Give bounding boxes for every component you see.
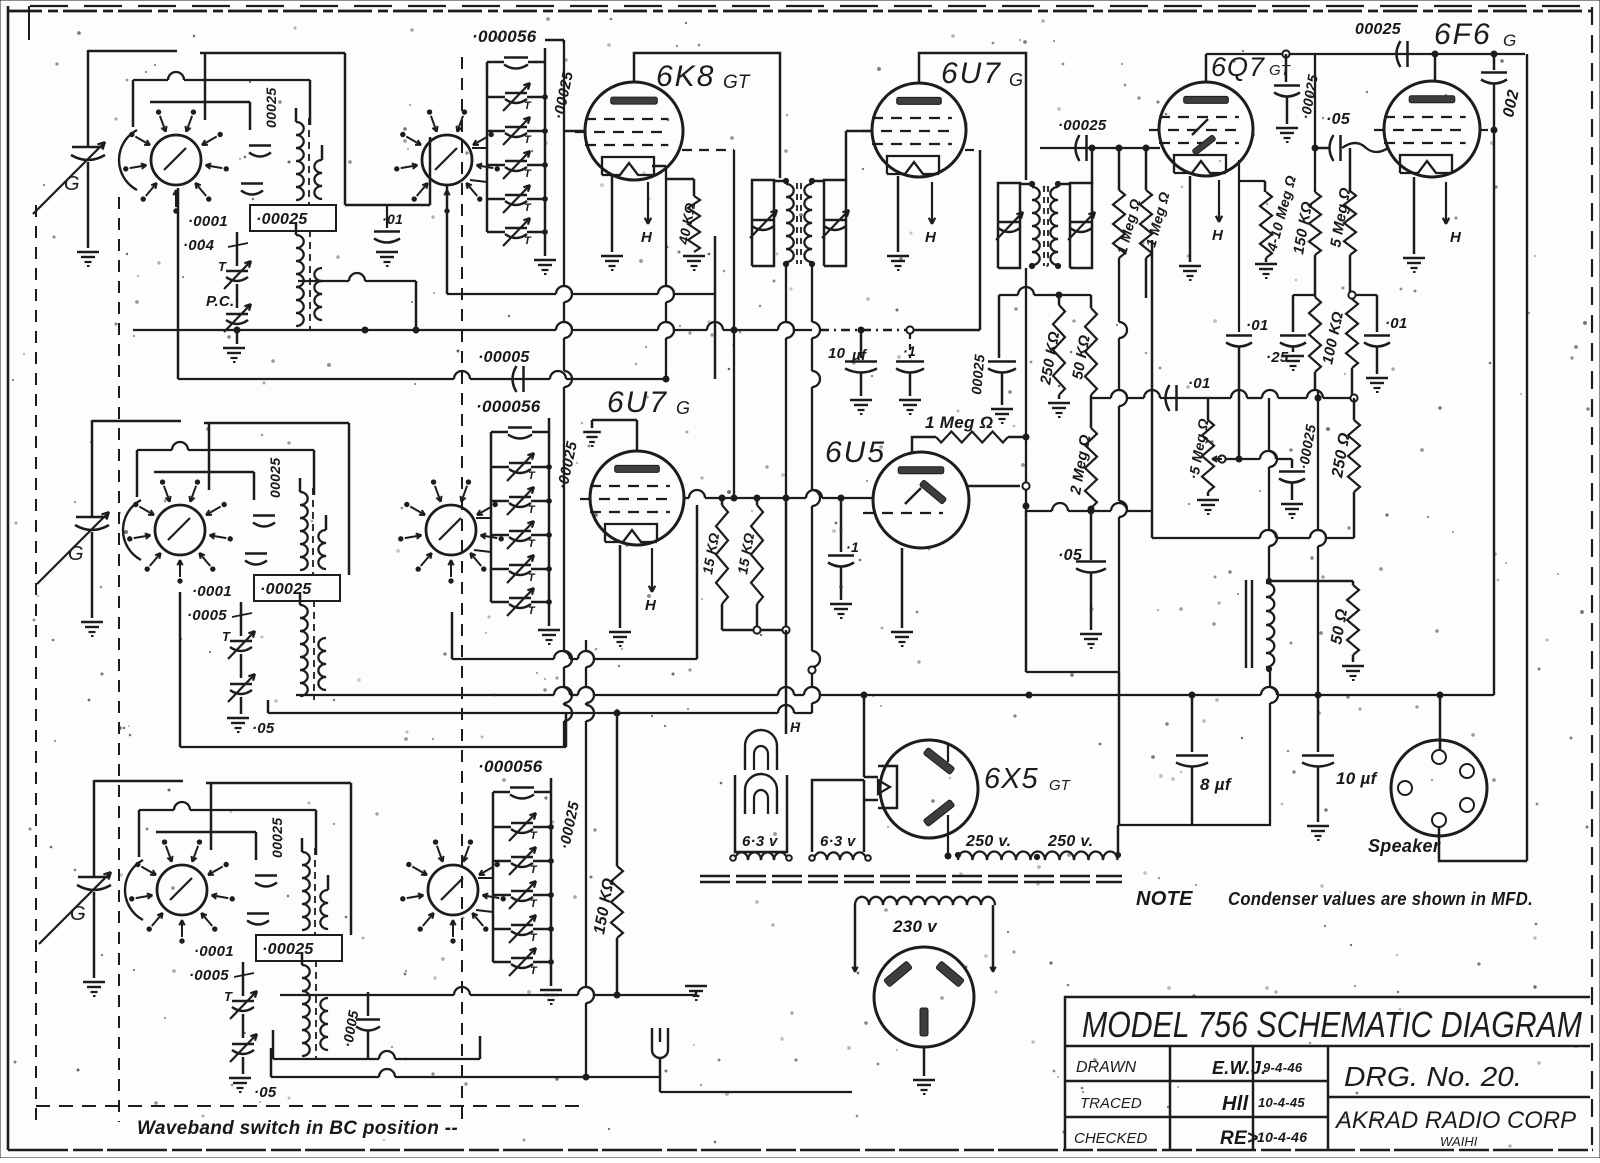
tube V5 6U7G [580,451,684,545]
svg-text:GT: GT [1049,777,1072,794]
wire bias box [1152,240,1354,538]
ground 00025 af [1281,483,1303,518]
label waihi [1440,1134,1478,1149]
capacitor .05 coupling [1330,135,1341,161]
ground .01 interstage [376,252,398,266]
ground V1 cathode [601,256,623,270]
switch S1a [119,110,228,213]
label 6-3v heater [820,833,857,850]
svg-text:·1: ·1 [846,539,859,555]
plug pin L [884,961,913,987]
svg-text:9-4-46: 9-4-46 [1263,1060,1303,1075]
capacitor 00025 plate [1274,54,1300,97]
wire block3 y1077 [271,1048,660,1080]
wire gang3 top [94,780,183,876]
wire IF2 sec top grid [1091,148,1094,184]
capacitor block3 c2 [247,914,269,925]
switch S2a [123,480,232,583]
capacitor .002 [1481,54,1507,84]
wire V7 heater tie [0,0,1,1]
trimmer T blk3 [224,989,257,1019]
ground blk1 pc [223,348,245,362]
svg-text:250 v.: 250 v. [965,833,1011,850]
wire blk1 trim [236,232,239,308]
resistor 1Meg b [1140,148,1173,258]
winding primary 230v [855,897,995,968]
wire v1527 speaker return [1526,54,1528,861]
core L2cd [313,600,315,700]
svg-text:TRACED: TRACED [1080,1095,1142,1112]
speaker pin 2 [1460,764,1474,778]
wire 15K bottoms [722,604,790,634]
svg-text:Condenser values are shown: Condenser values are shown in MFD. [1228,889,1533,909]
wire blk3 trim [242,962,245,1038]
ground gang2 [81,622,103,636]
core L3cd [315,960,317,1060]
svg-text:T: T [530,965,538,977]
capacitor 10uf [828,330,877,373]
winding 6.3v lamps [730,852,792,860]
ground 250K [1048,395,1070,417]
speaker plug [1391,740,1487,836]
border frame left [8,6,29,1150]
svg-text:DRG. No. 20.: DRG. No. 20. [1344,1061,1522,1092]
svg-text:1 Meg Ω: 1 Meg Ω [925,413,993,432]
wire det y398 [1091,390,1358,402]
wire V2 screen [965,150,980,330]
trimmer stack2 t2 [491,487,551,516]
svg-text:G: G [676,398,690,418]
IF2 can left box [998,183,1020,268]
svg-text:E.W.J.: E.W.J. [1212,1058,1266,1078]
svg-text:10: 10 [828,345,846,362]
svg-text:T: T [524,168,532,180]
wire IF1 sec bottom [808,266,820,713]
svg-text:T: T [530,864,538,876]
label 00025 screen rot [968,354,987,396]
svg-text:G: G [1009,70,1023,90]
boxed label .00025 blk3 [256,935,342,961]
wire 5Meg bottom [1348,255,1355,299]
title block drg divider [1328,1096,1590,1099]
ground V6 cathode [891,632,913,646]
coil IF2 secondary [1050,181,1060,268]
V7 cathode bracket [878,766,897,808]
label drg no [1344,1061,1522,1092]
date checked [1257,1129,1307,1145]
switch S1b [395,110,500,213]
label 6K8 GT [656,60,751,93]
wire V5 cathode [619,545,622,628]
wire avc long v1119 [1119,258,1127,672]
svg-text:10 µf: 10 µf [1336,769,1379,788]
capacitor 8uf [1176,695,1233,794]
trimmer stack3 t1 [493,813,553,842]
svg-text:6U7: 6U7 [941,57,1002,90]
padder cap block3 [339,992,380,1059]
wire field coil top [1269,580,1353,583]
core IF1 [797,183,801,264]
trimmer stack1 t1 [487,83,547,112]
label .00025 rot blk2 [267,458,283,498]
ground V5 cathode [609,632,631,646]
wire V2 plate [919,53,1026,180]
svg-text:250 v.: 250 v. [1047,833,1093,850]
svg-text:10-4-46: 10-4-46 [1257,1129,1307,1145]
svg-text:DRAWN: DRAWN [1076,1059,1137,1076]
wire stack1 right [544,48,547,256]
IF1 can left box [752,180,774,266]
title block rows [1065,1081,1328,1117]
wire v666 [666,166,674,379]
svg-text:10-4-45: 10-4-45 [1258,1095,1305,1110]
wire block2 h3 [154,472,254,500]
wire sw3b stubs [476,878,493,912]
wire V1 cathode gnd [611,176,614,252]
svg-text:·00025: ·00025 [262,941,314,958]
svg-text:H: H [1450,229,1462,246]
svg-text:·25: ·25 [1266,349,1289,366]
tube V6 6U5 [863,452,969,548]
ground gang1 [77,252,99,266]
ground .1 avc [899,373,921,414]
coil L2c [300,592,308,696]
wire block3 h1 [206,783,351,935]
svg-text:H: H [641,229,653,246]
wire V4 plate [1434,54,1437,82]
ground 00025 screen [991,373,1013,423]
svg-text:00025: 00025 [263,88,279,128]
coil L1d [314,268,322,320]
capacitor block3 c1 [255,876,277,887]
svg-text:·00005: ·00005 [478,349,530,366]
IF2 can right box [1070,183,1092,268]
wire v1269 to output [1269,398,1277,581]
svg-text:T: T [524,235,532,247]
svg-text:G: G [68,543,84,565]
svg-text:G: G [1503,31,1516,50]
ground 4-10Meg [1255,258,1277,278]
svg-text:·00025: ·00025 [256,211,308,228]
coil L3d [320,998,328,1050]
switch S3a [125,840,234,943]
date drawn [1263,1060,1303,1075]
wire stack1 left [486,62,489,232]
resistor 2Meg [1067,395,1097,512]
wire blk3 pc [242,1057,245,1074]
wire gang2 top [92,420,181,516]
tube V1 6K8GT [575,82,683,180]
speaker pin 1 [1432,750,1446,764]
coil IF1 secondary [804,178,814,266]
resistor tone pot [1346,299,1358,396]
wire block2 h1 [204,423,349,575]
label .0001 blk2 [192,583,232,600]
label 004 blk1 [183,237,248,254]
core L1cd [309,230,311,330]
label akrad [1334,1107,1576,1134]
svg-text:RE˃: RE˃ [1220,1128,1258,1149]
ground 50ohm [1342,655,1364,680]
arrow primary L [852,950,857,972]
wire 150K osc bottom [614,938,620,998]
winding 6.3v heater box [812,780,878,852]
sig checked [1220,1128,1258,1149]
svg-text:·05: ·05 [1058,547,1083,564]
resistor 50ohm [1328,581,1359,655]
wire box bottom y294 [447,186,715,379]
svg-text:·05: ·05 [254,1084,277,1101]
label 6U7 G mid [607,386,690,419]
label drawn [1076,1059,1137,1076]
waveband linkage dashed v2 [118,197,120,1122]
wire .05 to grid [1342,143,1388,152]
tube V2 6U7G [862,83,966,177]
wire 1Meg right [1008,436,1026,439]
label 00025 rot stack3 [556,800,583,851]
svg-text:·01: ·01 [382,211,403,227]
svg-text:·000056: ·000056 [478,757,543,776]
svg-text:230 v: 230 v [892,917,938,936]
switch S3b [401,840,506,943]
ground .01 b [1366,347,1388,392]
plug pin E [920,1008,928,1036]
winding 6.3v heater [809,852,871,860]
IF1 trimmer right [822,210,849,238]
wire stack2 left [490,432,493,602]
wire 4-10 top [1264,181,1267,192]
label 002 rot [1500,88,1522,119]
svg-text:T: T [528,605,536,617]
wire block3 h3 [156,832,256,860]
pilot lamp 2 [745,774,777,814]
svg-text:G: G [64,173,80,195]
coil L2b [318,515,326,569]
sig traced [1222,1093,1249,1115]
svg-text:·00025: ·00025 [260,581,312,598]
wire v617 150K [616,713,619,866]
label .0001 blk1 [188,213,228,230]
wire avc stub y281 [298,273,419,333]
svg-text:H: H [1212,227,1224,244]
wire V2 cathode gnd [897,176,900,252]
wire V5 plate out [684,490,873,501]
trimmer stack3 t4 [493,915,553,944]
wire diode branch a [1239,160,1265,332]
wire .05 left [1315,147,1330,150]
ground 00025 plate [1276,97,1298,142]
svg-text:T: T [530,830,538,842]
label 230v [892,917,938,936]
svg-text:P.C.: P.C. [206,293,234,310]
ground plug [913,1080,935,1094]
wire 40K top [693,179,696,196]
speaker pin 4 [1460,798,1474,812]
waveband linkage dashed v1 [35,205,37,1122]
wire sw1b stubs [470,148,487,182]
wire gang3 bottom [93,892,96,978]
lead H V2 [925,182,937,246]
lead H lamps [786,630,801,735]
wire y295 screen [999,287,1091,298]
svg-text:GT: GT [1269,62,1292,79]
sig drawn [1212,1058,1266,1078]
ground heater [685,986,707,1000]
wire V7 plate leads [945,745,951,859]
coil L2d [318,638,326,690]
wire IF1 top tie [774,180,824,183]
wire IF1 prim bottom [786,266,794,498]
capacitor .01 interstage [374,211,403,243]
capacitor block1 c1 [249,146,271,157]
coil L1b [314,145,322,199]
label 00025 rot stack1 [550,70,577,121]
svg-text:·0001: ·0001 [188,213,228,230]
ground gang3 [83,982,105,996]
resistor 250ohm [1329,398,1360,492]
svg-text:T: T [530,898,538,910]
svg-text:T: T [524,100,532,112]
label 004 blk2 [187,607,252,624]
wire block2 h2 [137,442,314,497]
ground 5Meg vol [1197,492,1219,514]
svg-text:T: T [524,134,532,146]
label 6X5 GT [984,763,1072,795]
svg-text:·000056: ·000056 [472,27,537,46]
label speaker [1368,836,1441,856]
label .0001 blk3 [194,943,234,960]
jack J1 [652,1028,668,1058]
lead H V3 [1212,180,1224,244]
trimmer stack1 t2 [487,117,547,146]
wire block2 v1 [208,423,211,490]
svg-text:·05: ·05 [1326,111,1351,128]
coil L3a [302,838,310,930]
wire IF1 sec top [846,131,872,181]
border frame right [1591,7,1593,1150]
resistor 100K [1309,255,1347,372]
wire bus corner 980 [0,0,1,1]
capacitor .1 avc [896,333,924,373]
svg-text:00025: 00025 [269,818,285,858]
capacitor stack3 top [493,788,551,799]
wire .01b feed [1356,295,1377,332]
wire bus y695 main [296,687,1494,698]
svg-text:·0001: ·0001 [194,943,234,960]
gang tuning capacitor C2a [37,512,109,584]
trimmer stack1 t5 [487,218,547,247]
coil L3b [320,875,328,929]
winding HT secondary [955,851,1120,860]
wire blk1 pc [236,327,239,344]
waveband linkage dashed v3 [461,57,463,1122]
wire block3 v1 [210,783,213,850]
border frame bottom [8,1149,1593,1152]
wire V7 top box [0,0,1,1]
svg-text:·0001: ·0001 [192,583,232,600]
ground 10uf b [1307,767,1329,840]
wire stack3 right [550,778,553,986]
svg-text:GT: GT [723,72,751,93]
waveband linkage dashed bottom [36,1105,588,1107]
resistor 5Meg [1327,148,1356,255]
coil L1a [296,108,304,200]
svg-text:6·3 v: 6·3 v [742,833,779,850]
wire 1Meg left [912,437,936,452]
wire V1 grid [564,130,586,133]
trimmer PC blk1 [206,293,251,332]
IF1 trimmer left [750,210,777,238]
wire block1 h1 [200,53,345,205]
svg-text:T: T [528,470,536,482]
label 6-3v lamps [742,833,779,850]
label 00025 af rot [1295,423,1319,470]
svg-text:·0005: ·0005 [189,967,229,984]
wire v586 osc [586,640,594,1077]
title block frame [1065,997,1590,1150]
svg-text:6·3 v: 6·3 v [820,833,857,850]
capacitor 00025 coupling [1397,41,1408,67]
svg-text:·01: ·01 [1188,375,1211,392]
transformer core [700,876,1122,882]
svg-text:H: H [790,719,801,735]
capacitor .00025 grid [1076,135,1087,161]
svg-text:·000056: ·000056 [476,397,541,416]
trimmer stack2 t5 [491,588,551,617]
svg-text:·0005: ·0005 [187,607,227,624]
svg-text:Waveband switch in BC pos: Waveband switch in BC position -- [137,1118,458,1139]
lead H V5 [645,548,657,614]
wire wiper [1226,451,1292,462]
wire sw2b stubs [474,518,491,552]
ground V2 cathode [887,256,909,270]
trimmer stack2 t3 [491,521,551,550]
wire 100K bottom [1314,372,1317,390]
wire block1 h2 [133,72,310,127]
trimmer T blk1 [218,259,251,289]
tube V4 6F6G [1374,81,1480,177]
label .00025 rot blk3 [269,818,285,858]
svg-text:T: T [222,629,231,644]
svg-text:T: T [218,259,227,274]
capacitor .01 a [1226,317,1269,347]
trimmer PC blk3 [230,1034,257,1062]
svg-text:AKRAD RADIO CORP: AKRAD RADIO CORP [1334,1107,1576,1134]
speaker pin 5 [1432,813,1446,827]
capacitor -00005 [478,349,530,392]
title block cols [1170,1046,1328,1150]
coil L2a [300,478,308,570]
trimmer stack2 t1 [491,453,551,482]
plug P1 [874,947,974,1047]
resistor 1Meg grid [925,413,1008,443]
ground stack1 [534,260,556,274]
svg-text:T: T [528,504,536,516]
wire V3 plate [1206,50,1525,82]
resistor 250K [1037,295,1065,395]
wire V1 dash right [682,149,734,151]
core L1ab [308,118,310,205]
wire V1 heater branch [652,166,694,179]
ground blk2 pc [227,718,249,732]
resistor 4-10Meg [1260,174,1299,258]
svg-text:6K8: 6K8 [656,60,715,93]
wire stack3 left [492,792,495,962]
gang tuning capacitor C1a [33,142,105,214]
wire .01 branch [345,137,430,228]
label 6Q7 GT [1211,52,1292,82]
ground 10uf [850,373,872,414]
